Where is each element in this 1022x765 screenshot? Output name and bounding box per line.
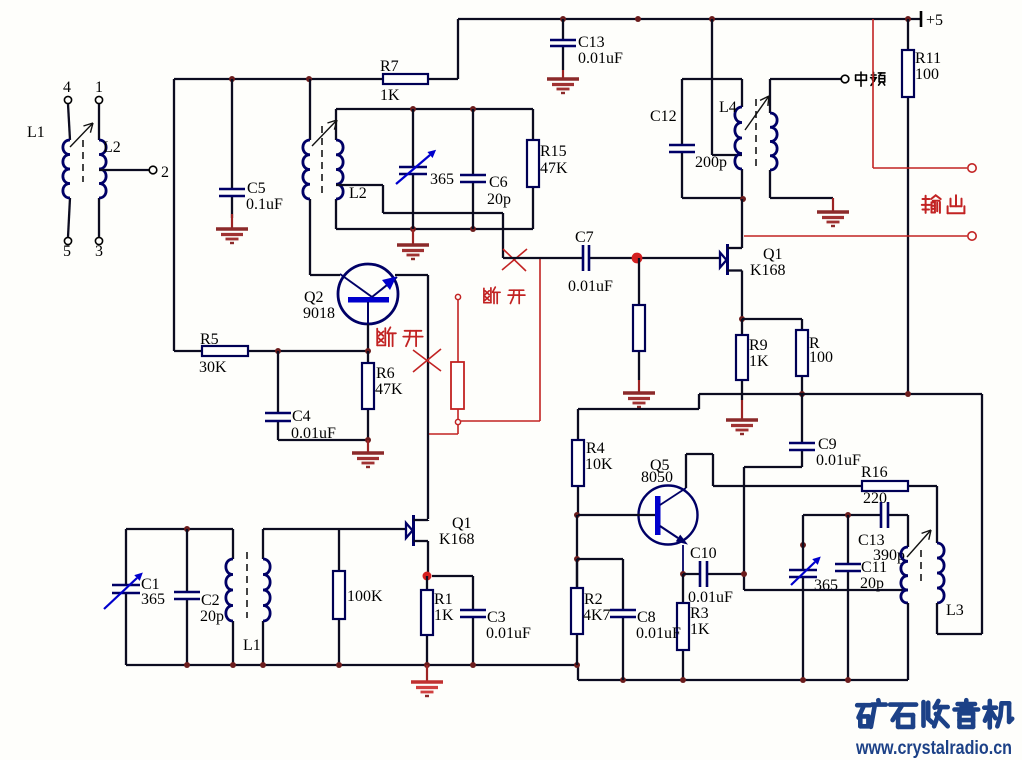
svg-text:C12: C12 [650,108,677,125]
wire BFO tank bottom [744,589,908,591]
svg-text:C2: C2 [201,592,220,609]
svg-text:+5: +5 [926,12,943,29]
svg-text:100K: 100K [347,588,383,605]
terminal output 1 (red) [968,164,976,172]
label duankai 2 (red) [484,287,525,303]
junction tank top / C2 [184,526,190,532]
wire C9 to C10 node [744,467,802,574]
svg-text:L3: L3 [946,602,964,619]
transistor Q2 9018 [303,264,398,324]
svg-text:220: 220 [863,490,887,507]
junction R2 / C8 branch [574,556,580,562]
svg-text:Q1: Q1 [452,515,472,532]
wire L4 secondary to ground [770,197,833,199]
capacitor C2 [174,529,224,665]
wire C12 loop top [682,78,742,80]
svg-text:0.01uF: 0.01uF [486,625,531,642]
junction Q5 emitter / C10 / R3 [680,571,686,577]
svg-text:C3: C3 [487,609,506,626]
capacitor C5 [219,79,283,218]
wire Q2 collector to vertical [395,274,428,276]
svg-text:47K: 47K [540,160,568,177]
resistor R2 [571,559,611,665]
resistor R6 [362,351,403,440]
ground under C13 [547,70,579,93]
ground main (bright) [411,665,443,696]
resistor 100K [333,529,383,665]
label zhongpin (IF) [856,72,885,86]
junction R4 / Q5 base / R2 [574,512,580,518]
wire L4 to Q1 drain [741,199,743,220]
resistor bias (unlabeled) [633,258,645,380]
svg-text:365: 365 [430,171,454,188]
wire L4 secondary to IF out [770,78,841,80]
transformer L1 L2 input [27,79,121,260]
wire Q5 base [578,514,655,516]
svg-text:365: 365 [141,591,165,608]
junction rail / 365 BFO [800,677,806,683]
terminal IF out [841,75,849,83]
junction R6 / C4 / ground [365,437,371,443]
resistor R9 [736,319,769,400]
junction rail / R3 [680,677,686,683]
wire Q1 source to C3 [432,576,473,610]
terminal +5 [921,11,943,29]
wire osc tank top [336,108,533,110]
svg-text:20p: 20p [200,608,224,625]
svg-text:0.1uF: 0.1uF [246,196,283,213]
junction rail / C3 [470,662,476,668]
junction tank top / 365 [410,106,416,112]
junction rail / C11 [845,677,851,683]
red jumper resistor (mod) [451,294,464,424]
junction R7 wire / C5 [229,76,235,82]
transformer L4 IF [719,79,777,199]
capacitor C13 [550,19,623,70]
ground under bias resistor [623,380,655,407]
svg-text:R7: R7 [380,58,399,75]
transformer L1 input tank [226,529,270,665]
svg-text:R15: R15 [540,143,567,160]
capacitor C13 390p [803,502,908,564]
capacitor C3 [460,609,531,665]
cut mark X on vertical wire [413,349,441,372]
junction rail / 100K [336,662,342,668]
wire Q2 collector to Q1 drain vertical [427,275,429,519]
wire rail to L3 secondary [937,394,982,634]
svg-text:0.01uF: 0.01uF [578,50,623,67]
svg-text:4: 4 [63,79,71,96]
svg-text:Q1: Q1 [763,246,783,263]
junction C10 / C9 branch [741,571,747,577]
ground under osc tank [397,229,429,259]
wire 390p to L3 [907,515,909,547]
red wire from +5 to output 1 [873,19,967,168]
svg-text:10K: 10K [585,456,613,473]
wire C4 to R6 ground node [278,439,368,441]
variable capacitor C1 365 [104,529,165,665]
ground under C5 [216,214,248,243]
transformer L2 oscillator [303,79,367,275]
watermark kuangshi shouyinji [857,700,1012,727]
label duankai 1 (red) [377,327,423,346]
svg-text:200p: 200p [695,154,727,171]
junction 390p wire / C11 [845,512,851,518]
junction rail / C2 [184,662,190,668]
junction Q1 source / R1 / C3 (red) [423,572,432,581]
svg-text:C4: C4 [292,408,311,425]
capacitor C7 [503,229,719,295]
resistor R16 [713,464,937,507]
svg-text:L1: L1 [243,637,261,654]
svg-text:1K: 1K [380,87,400,104]
svg-text:47K: 47K [375,381,403,398]
capacitor C8 [610,609,681,680]
svg-text:8050: 8050 [641,469,673,486]
junction rail / L1 left [230,662,236,668]
wire +5 tap to L4 [712,19,742,155]
capacitor C10 [683,545,744,606]
svg-text:30K: 30K [199,359,227,376]
transistor Q1 K168 (IF) [720,220,786,319]
wire Q1 source to R 100 [742,319,802,330]
svg-text:1K: 1K [749,353,769,370]
svg-text:www.crystalradio.cn: www.crystalradio.cn [855,738,1012,759]
junction top rail [635,16,641,22]
svg-text:9018: 9018 [303,305,335,322]
ground under R9 [726,400,758,434]
svg-text:C8: C8 [637,609,656,626]
capacitor C12 [650,79,727,198]
junction R7 wire / L2 primary [306,76,312,82]
svg-text:R1: R1 [434,591,453,608]
svg-text:2: 2 [161,164,169,181]
junction tank top / C6 [470,106,476,112]
wire input tank top right [263,528,406,530]
transistor Q5 8050 [639,457,698,574]
junction C7 node (red) [632,253,643,264]
wire +5 distribution rail [578,394,982,409]
junction top rail / L4 tap [709,16,715,22]
junction R100 / +5 rail [799,391,805,397]
svg-text:K168: K168 [750,262,786,279]
wire osc tank bottom [336,228,533,230]
capacitor C6 [460,109,511,229]
svg-text:1K: 1K [434,607,454,624]
wire Q2 base from L2 [310,274,340,276]
wire input tank top left [126,528,233,530]
red wire mod to C7 node [461,259,540,421]
junction 365 branch [800,542,806,548]
wire ground rail right [578,665,908,680]
junction tank bottom / C6 [470,226,476,232]
svg-text:R11: R11 [915,50,941,67]
svg-text:R2: R2 [584,591,603,608]
svg-text:4K7: 4K7 [583,607,611,624]
wire ground rail left [126,664,578,666]
svg-text:C7: C7 [575,229,594,246]
junction rail / R11 branch [905,391,911,397]
wire C11 branch to ground rail [847,590,849,680]
svg-text:K168: K168 [439,531,475,548]
resistor R5 [174,331,368,376]
junction Q1 source / R9 [739,316,745,322]
transistor Q1 K168 (RF) [406,515,475,576]
wire C8 branch [577,559,623,610]
variable capacitor 365 BFO [789,515,838,594]
wire L2 tap to C7 node [336,185,503,258]
svg-text:3: 3 [95,243,103,260]
wire 365 branch to ground rail [802,590,804,680]
svg-text:100: 100 [915,66,939,83]
svg-text:L2: L2 [349,185,367,202]
svg-text:C11: C11 [861,559,887,576]
wire R4 to R2 vertical [576,515,578,588]
svg-text:L1: L1 [27,124,45,141]
transformer L3 BFO [901,530,964,680]
variable capacitor 365 oscillator [396,109,454,229]
resistor R11 [902,19,941,394]
junction R5 wire / C4 [275,348,281,354]
junction tank bottom / 365 [410,226,416,232]
svg-text:Q2: Q2 [304,289,324,306]
svg-text:L4: L4 [719,99,737,116]
capacitor C4 [265,351,336,442]
junction R5 wire / Q2 emitter [365,348,371,354]
svg-text:20p: 20p [487,191,511,208]
junction rail / C8 [620,677,626,683]
cut mark X on C7 wire [502,249,527,271]
wire Q5 collector staircase [686,454,713,488]
label shuchu (output, red) [922,195,965,213]
red wire output 2 from Q1 drain [744,235,967,237]
svg-text:R4: R4 [586,440,605,457]
resistor R4 [572,409,613,515]
ground under L4 [817,198,849,226]
svg-text:R9: R9 [749,337,768,354]
svg-text:C10: C10 [690,545,717,562]
wire left vertical from R7 to R5 [173,79,175,351]
svg-text:R3: R3 [690,605,709,622]
resistor R1 [421,576,454,665]
capacitor C11 [835,515,887,592]
svg-text:0.01uF: 0.01uF [568,278,613,295]
wire C10 node to BFO tank [743,574,745,590]
junction L4 bottom / Q1 drain [740,196,746,202]
svg-text:365: 365 [814,577,838,594]
svg-text:100: 100 [809,349,833,366]
svg-text:C5: C5 [247,180,266,197]
junction rail / L1 right [260,662,266,668]
svg-text:R16: R16 [861,464,888,481]
junction rail / R1 [424,662,430,668]
wire C12 loop bottom [682,197,742,199]
svg-text:C13: C13 [578,34,605,51]
svg-text:0.01uF: 0.01uF [816,452,861,469]
wire R16 to L3 primary top [936,486,938,543]
capacitor C9 [789,394,861,469]
resistor R15 [527,109,568,229]
wire +5 rail [458,19,921,79]
svg-text:1: 1 [95,79,103,96]
resistor R3 [677,574,710,680]
junction top rail / R11 [905,16,911,22]
svg-text:5: 5 [63,243,71,260]
svg-text:1K: 1K [690,621,710,638]
resistor R 100 [796,330,833,394]
resistor R7 [174,58,458,104]
svg-text:C6: C6 [489,174,508,191]
svg-text:C9: C9 [818,436,837,453]
junction top rail / C13 [560,16,566,22]
svg-text:0.01uF: 0.01uF [636,625,681,642]
wire Q2 emitter down [367,324,369,351]
svg-text:0.01uF: 0.01uF [688,589,733,606]
junction rail / R2 [574,662,580,668]
ground under R6 [352,440,384,467]
red wire mod to collector vertical [429,425,458,434]
terminal output 2 (red) [968,232,976,240]
svg-text:R6: R6 [376,365,395,382]
svg-text:R5: R5 [200,331,219,348]
terminal 2 [99,164,169,181]
svg-text:L2: L2 [103,139,121,156]
